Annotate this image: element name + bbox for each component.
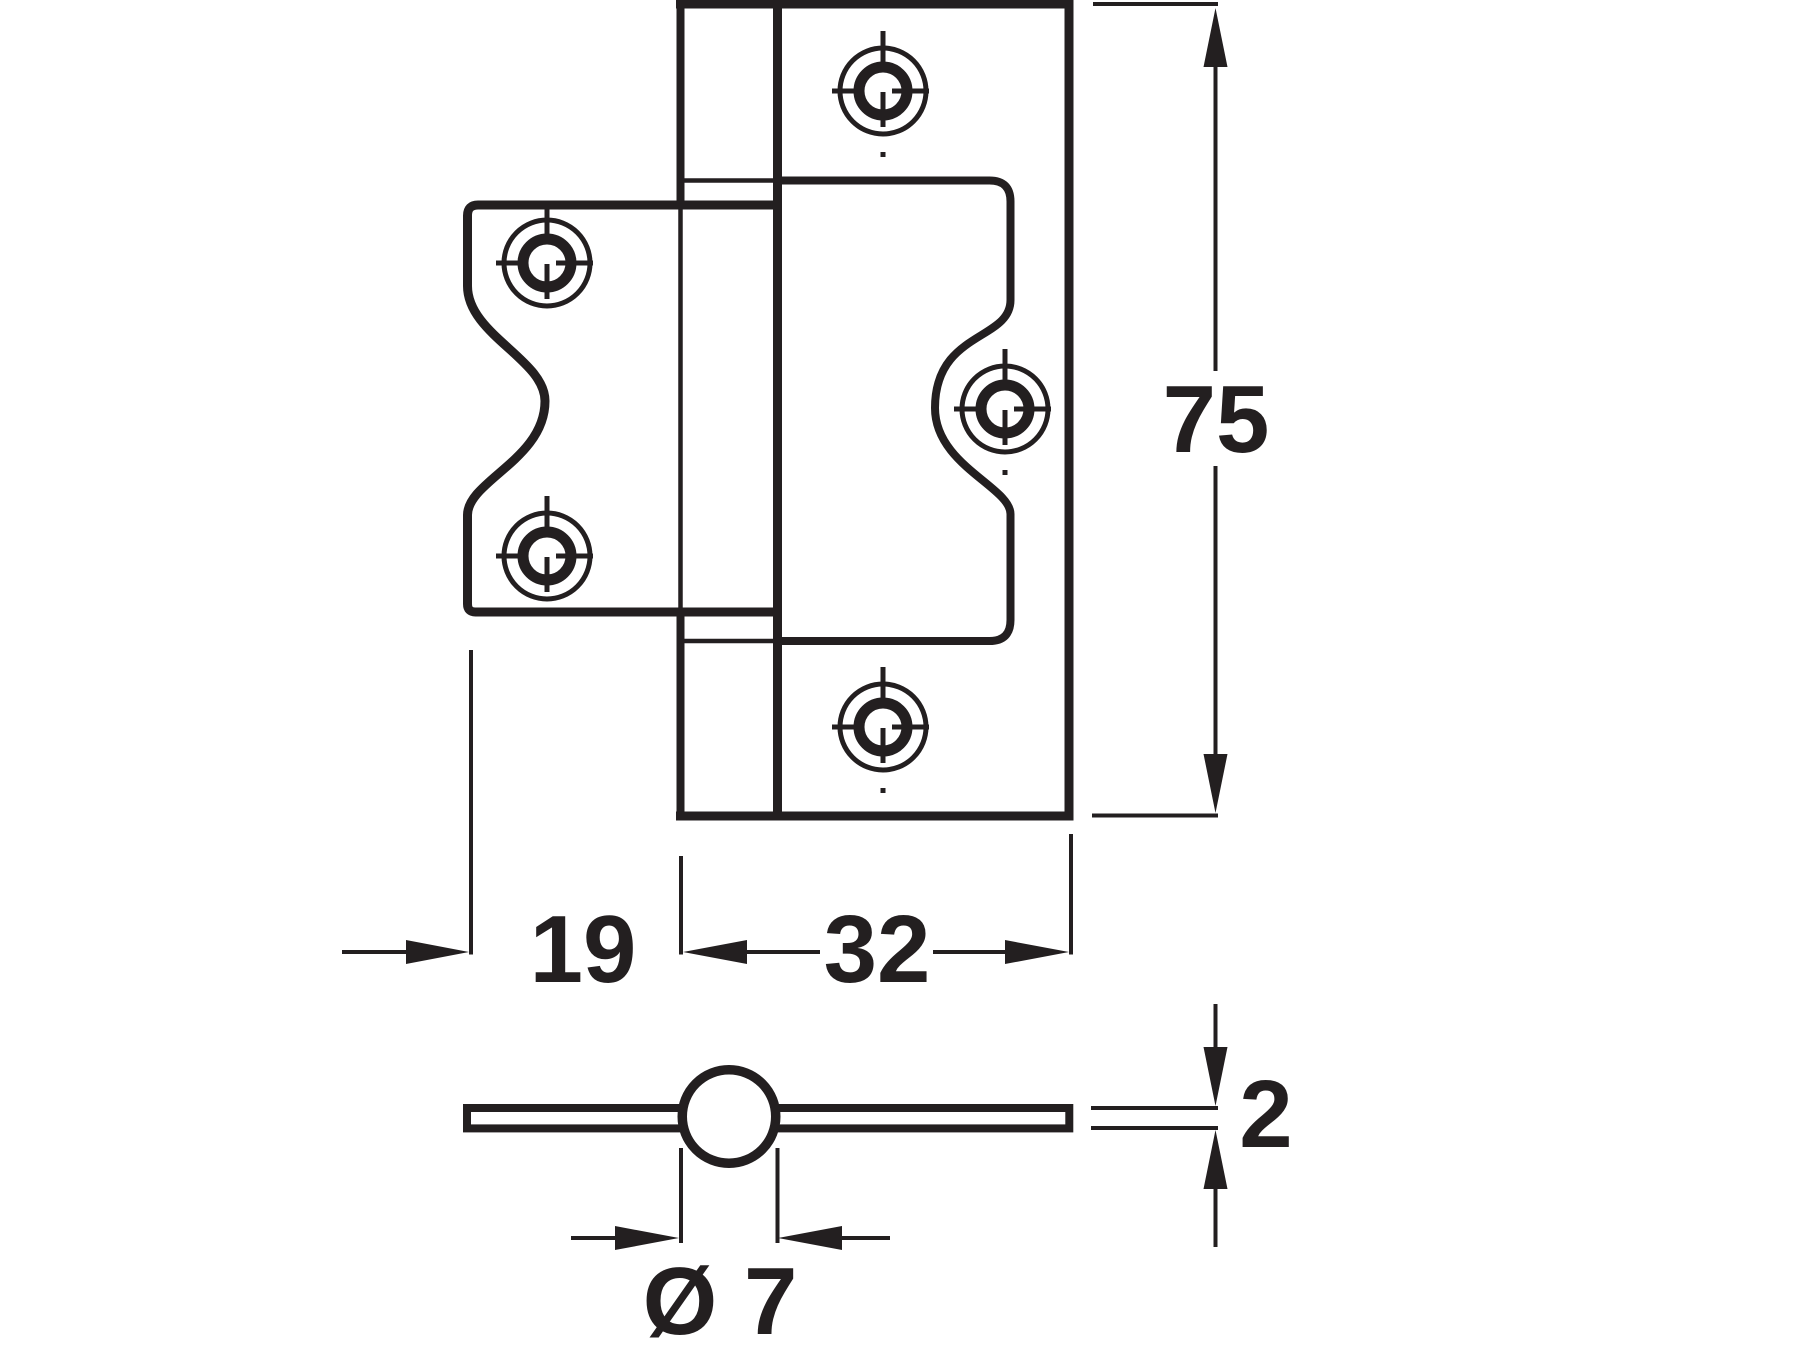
svg-text:2: 2 (1239, 1061, 1292, 1168)
svg-text:19: 19 (530, 896, 637, 1003)
svg-text:32: 32 (824, 896, 931, 1003)
svg-text:Ø 7: Ø 7 (643, 1248, 798, 1350)
svg-text:75: 75 (1163, 366, 1270, 473)
